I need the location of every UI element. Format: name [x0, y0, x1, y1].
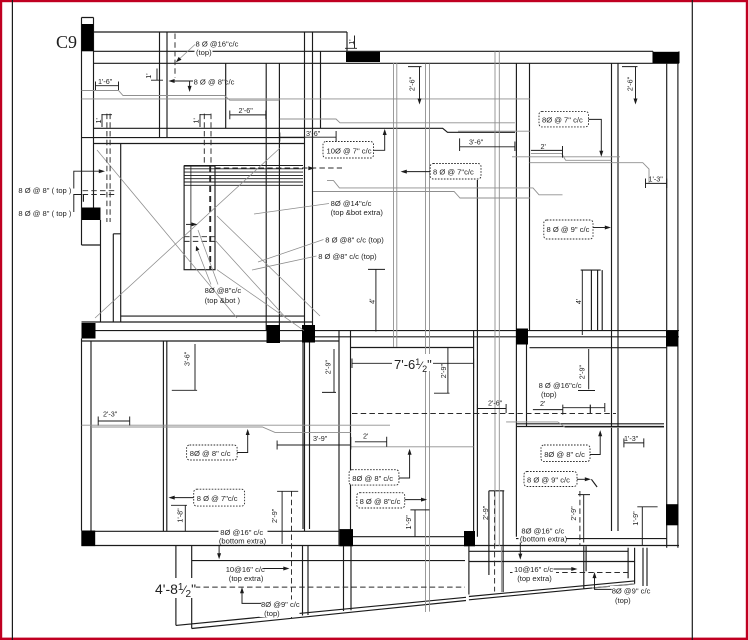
dim 1'-9" rot a [404, 510, 429, 537]
callout box 10Ø @ 7" c/c [323, 129, 387, 158]
text 8Ø @8"c/c (top &bot ) stair [196, 230, 242, 305]
callout box 8Ø @ 8" c/c bottom left [187, 429, 250, 460]
svg-text:8 Ø @ 7"c/c: 8 Ø @ 7"c/c [197, 494, 238, 503]
dim 2'-6" room A right [230, 106, 266, 119]
svg-text:2'-9": 2'-9" [569, 506, 578, 521]
svg-text:8Ø @ 8" c/c: 8Ø @ 8" c/c [544, 450, 585, 459]
text 8 Ø @8" c/c (top) 2 [252, 252, 377, 270]
dim 7'-6 1/2" [352, 359, 474, 369]
svg-text:2': 2' [363, 431, 369, 440]
stair box internal arrow [186, 223, 195, 225]
svg-text:1'-6": 1'-6" [98, 77, 113, 86]
svg-text:1'-3": 1'-3" [624, 434, 639, 443]
svg-text:8Ø @14"c/c: 8Ø @14"c/c [331, 199, 372, 208]
column C9 [82, 24, 94, 51]
svg-text:4': 4' [368, 298, 377, 304]
dashed rebar lines [83, 34, 628, 620]
column mid right edge [666, 331, 678, 347]
text 8Ø @9" c/c (top) right [593, 572, 653, 605]
text 8 Ø @ 8" ( top ) lower [18, 195, 82, 219]
column bottom b [464, 531, 475, 546]
text 8Ø @16" c/c (bottom extra) right [518, 526, 567, 560]
svg-text:(top extra): (top extra) [517, 574, 552, 583]
dim 2'-9" rot c [434, 347, 450, 393]
svg-text:2': 2' [541, 142, 547, 151]
dim 3'-6" top mid [280, 129, 336, 143]
dim 3'-6" top mid2 [460, 138, 515, 152]
column bottom a [340, 529, 353, 546]
dim 2'-9" rot e [577, 349, 595, 391]
svg-text:3'-6": 3'-6" [183, 351, 192, 366]
svg-text:(top): (top) [615, 596, 631, 605]
svg-text:2'-3": 2'-3" [103, 410, 118, 419]
dim 2'-9" rot a [322, 349, 336, 392]
thin rebar lines [82, 51, 665, 612]
svg-text:8Ø @8"c/c: 8Ø @8"c/c [205, 286, 242, 295]
callout box 8Ø @ 7" c/c room C [539, 111, 603, 156]
dim 4' rot a [368, 269, 385, 331]
svg-text:2'-6": 2'-6" [239, 106, 254, 115]
callout box 8 Ø @ 8"c/c mid bottom 2 [357, 493, 427, 508]
svg-text:8 Ø @ 9" c/c: 8 Ø @ 9" c/c [527, 476, 570, 485]
svg-text:1'-8": 1'-8" [175, 508, 184, 523]
dim 1'-3" top right [646, 174, 667, 188]
callout box 8 Ø @ 9" c/c room C [544, 220, 611, 239]
column mid c [516, 329, 528, 345]
text 8 Ø @16"c/c (top) mid right [539, 381, 582, 399]
dim 2' room C [531, 142, 563, 158]
dim 1'-6" room A [96, 77, 119, 90]
text 8 Ø @8" c/c (top) 1 [258, 236, 384, 263]
black frame line right [691, 0, 693, 640]
svg-text:2'-9": 2'-9" [270, 508, 279, 523]
svg-text:(bottom extra): (bottom extra) [520, 535, 568, 544]
svg-text:(top): (top) [196, 48, 212, 57]
svg-text:2'-6": 2'-6" [488, 398, 503, 407]
text 8Ø @16" c/c (bottom extra) left [217, 528, 267, 560]
dim 1' at top bar [345, 36, 357, 49]
main wall and beam lines [82, 18, 680, 629]
column bar top right corner [653, 52, 679, 63]
stair treads [184, 166, 303, 186]
svg-text:8 Ø @ 8" ( top ): 8 Ø @ 8" ( top ) [18, 209, 72, 218]
svg-text:8Ø @9" c/c: 8Ø @9" c/c [261, 600, 300, 609]
column left middle [82, 208, 101, 221]
stair inner box [184, 166, 215, 270]
text 10@16" c/c (top extra) right [513, 565, 578, 583]
svg-text:2'-9": 2'-9" [324, 359, 333, 374]
svg-text:7'-61⁄2": 7'-61⁄2" [394, 357, 432, 374]
callout box 8 Ø @ 9" c/c right [524, 472, 591, 487]
svg-text:2'-6": 2'-6" [407, 76, 416, 91]
dashed leader arrow mid [308, 166, 314, 170]
svg-text:(top extra): (top extra) [229, 574, 264, 583]
dim 1'-8" rot [171, 505, 187, 531]
dim 2' mid bottom [533, 399, 605, 415]
text 8 Ø @ 8"c/c room A [168, 77, 234, 92]
svg-text:8 Ø @16"c/c: 8 Ø @16"c/c [539, 381, 582, 390]
column mid b [302, 325, 315, 343]
svg-text:1'-9": 1'-9" [404, 515, 413, 530]
dim 1'-9" rot b [631, 507, 658, 545]
callout box 8Ø @ 8" c/c right [541, 430, 602, 461]
callout box 8Ø @ 8" c/c mid bottom [349, 449, 412, 485]
dim 1' at stub [144, 69, 163, 81]
svg-text:2': 2' [540, 399, 546, 408]
dim 3'-9" [277, 434, 351, 450]
column right lower [666, 504, 678, 525]
dim 4'-8 1/2" [154, 578, 196, 598]
svg-text:(top &bot ): (top &bot ) [205, 296, 241, 305]
svg-text:(top &bot extra): (top &bot extra) [331, 208, 384, 217]
column mid a [267, 325, 281, 343]
column bottom left [81, 531, 95, 547]
text 10@16" c/c (top extra) left [224, 565, 290, 583]
dim 4' rot b [574, 270, 583, 335]
dim 1' room A lower left [94, 114, 112, 127]
svg-text:2'-9": 2'-9" [577, 364, 586, 379]
svg-text:8 Ø @ 8"c/c: 8 Ø @ 8"c/c [360, 497, 401, 506]
svg-text:8 Ø @8" c/c (top): 8 Ø @8" c/c (top) [325, 236, 384, 245]
svg-text:(top): (top) [264, 609, 280, 618]
dim 2'-9" rot d [481, 505, 490, 520]
dim 2'-6" mid bottom [477, 398, 506, 413]
callout box 8 Ø @ 7"c/c bottom left [169, 489, 245, 506]
column bar top middle [346, 52, 380, 62]
svg-text:(top): (top) [541, 390, 557, 399]
svg-text:3'-6": 3'-6" [469, 138, 484, 147]
svg-text:8Ø @ 8" c/c: 8Ø @ 8" c/c [190, 449, 231, 458]
svg-text:10@16" c/c: 10@16" c/c [226, 565, 265, 574]
svg-text:10Ø @ 7" c/c: 10Ø @ 7" c/c [327, 146, 372, 155]
dim 2' bottom left [355, 431, 387, 447]
dim 3'-6" rot bottom left [172, 344, 197, 390]
svg-text:2'-9": 2'-9" [481, 505, 490, 520]
svg-text:8 Ø @ 8" ( top ): 8 Ø @ 8" ( top ) [18, 186, 72, 195]
svg-text:1'-3": 1'-3" [649, 174, 664, 183]
svg-text:8Ø @ 7" c/c: 8Ø @ 7" c/c [542, 116, 583, 125]
svg-text:1': 1' [191, 117, 200, 123]
dim 2'-3" bottom left [98, 410, 130, 426]
dim 1' room A lower mid [191, 114, 210, 127]
svg-text:8 Ø @8" c/c (top): 8 Ø @8" c/c (top) [318, 252, 377, 261]
svg-text:1'-9": 1'-9" [631, 511, 640, 526]
svg-text:8 Ø @ 9" c/c: 8 Ø @ 9" c/c [547, 225, 590, 234]
svg-text:1': 1' [144, 73, 153, 79]
svg-text:8Ø @9" c/c: 8Ø @9" c/c [612, 587, 651, 596]
svg-text:3'-9": 3'-9" [313, 434, 328, 443]
svg-text:8Ø @ 8" c/c: 8Ø @ 8" c/c [352, 474, 393, 483]
text 8Ø @14"c/c (top &bot extra) [254, 199, 383, 217]
text 8 Ø @ 8" ( top ) upper [18, 169, 105, 195]
text 8Ø @9" c/c (top) left [240, 587, 300, 618]
dim 1'-3" right mid [624, 434, 644, 447]
svg-text:C9: C9 [56, 32, 77, 52]
dim 2'-9" rot b [270, 491, 298, 544]
svg-text:10@16" c/c: 10@16" c/c [514, 565, 553, 574]
callout box 8 Ø @ 7"c/c left [401, 164, 481, 180]
text 8 Ø @16"c/c (top) top [176, 39, 239, 62]
svg-text:8 Ø @ 8"c/c: 8 Ø @ 8"c/c [194, 77, 235, 86]
black frame line left [11, 0, 13, 640]
dim 2'-9" rot f bottom right [569, 495, 590, 543]
svg-text:2'-9": 2'-9" [439, 363, 448, 378]
svg-text:(bottom extra): (bottom extra) [219, 537, 267, 546]
dim 2'-6" rot right [622, 67, 638, 105]
svg-text:8 Ø @ 7"c/c: 8 Ø @ 7"c/c [433, 168, 474, 177]
dim 2'-6" rot left [407, 67, 421, 105]
svg-text:2'-6": 2'-6" [626, 76, 635, 91]
svg-text:3'-6": 3'-6" [306, 129, 321, 138]
column mid-left on beam [82, 323, 96, 339]
stair X braces [95, 148, 320, 331]
